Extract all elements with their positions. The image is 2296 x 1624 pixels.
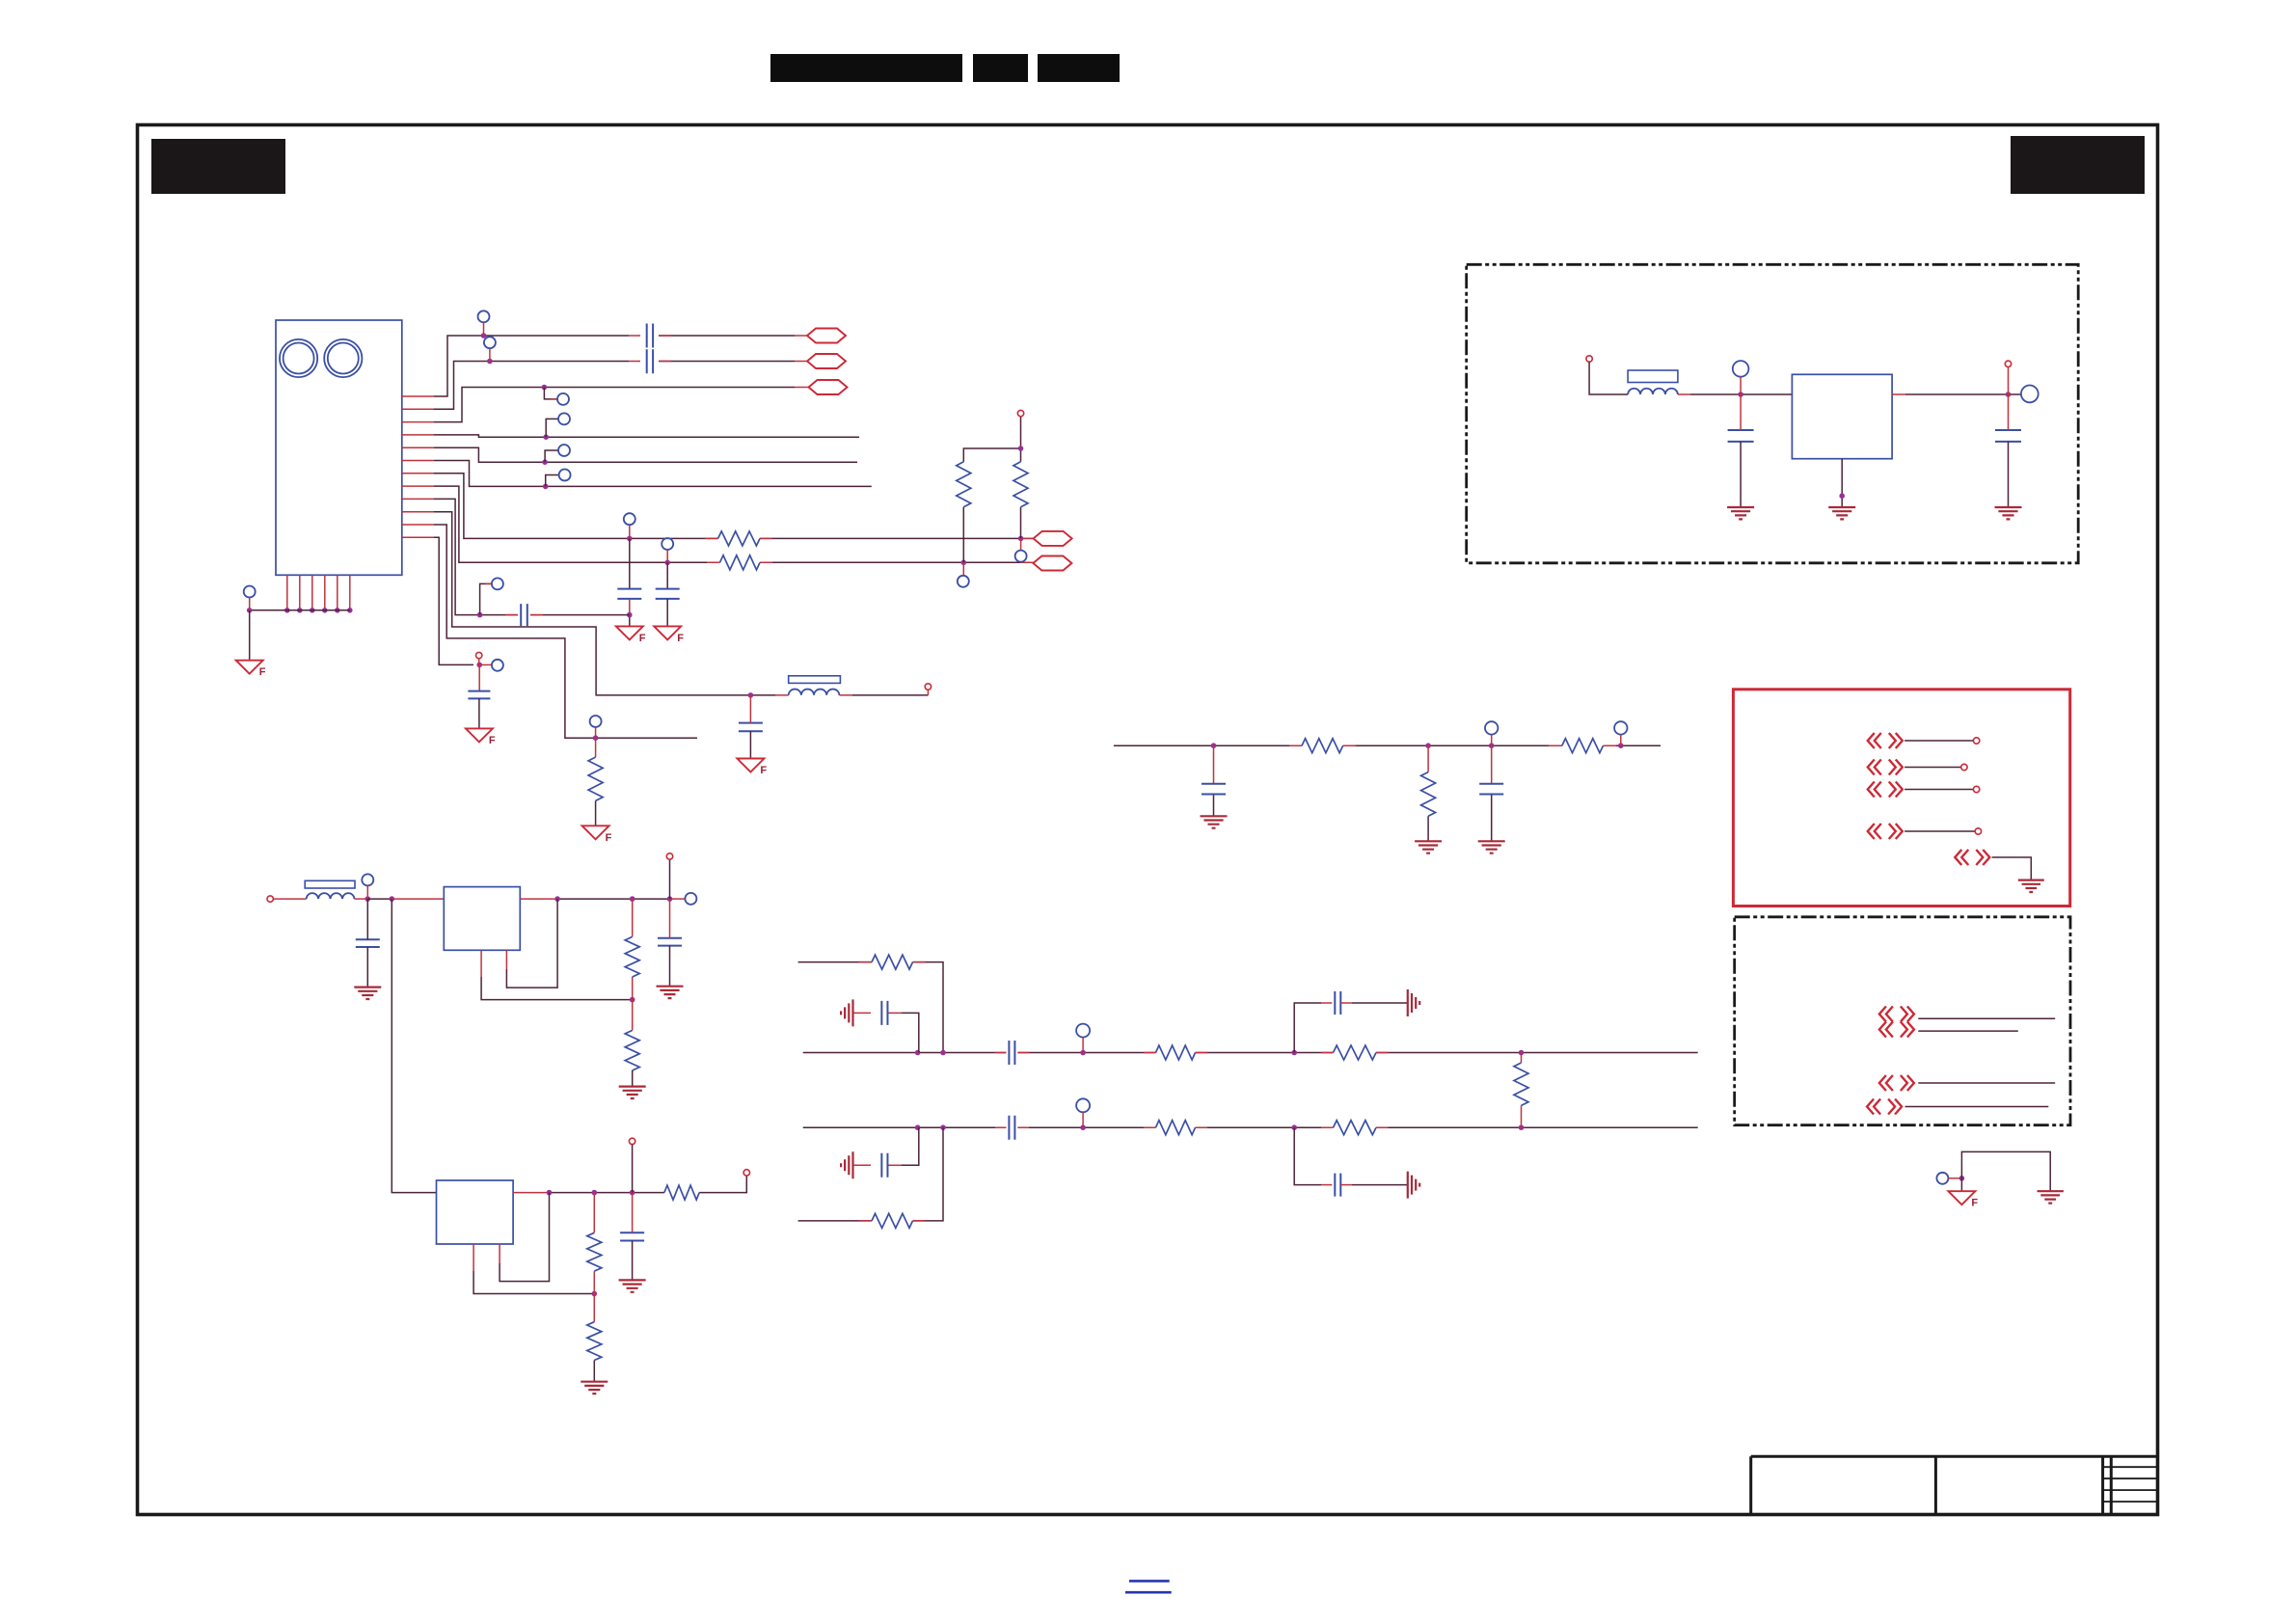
connector diamond DB: [1033, 556, 1071, 571]
sheet frame: [138, 125, 2158, 1515]
wire reg1 in: [367, 898, 392, 900]
terminal VIN-m1: [1586, 356, 1592, 362]
terminal TP1: [478, 311, 490, 322]
terminal P1: [1973, 738, 1979, 744]
wire bus down: [249, 610, 251, 661]
wire C12 bot lead: [478, 698, 480, 728]
svg-text:F: F: [259, 666, 266, 678]
junction pin b2: [297, 608, 303, 613]
resistor R2b: [587, 1322, 602, 1361]
inductor FB1: [307, 893, 355, 899]
wire tie loop: [1961, 1151, 2050, 1191]
capacitor CgT: [881, 1001, 887, 1025]
wire net2: [434, 362, 795, 410]
wire diffB2 red: [995, 1126, 1389, 1128]
junction reg1 in b: [390, 896, 395, 902]
junction B2 c: [1080, 1124, 1086, 1130]
junction T2 d: [1291, 1050, 1297, 1056]
terminal VOUT-m1: [2005, 361, 2011, 366]
resistor Rdiv1: [957, 462, 971, 507]
ground S gcapT: [841, 999, 852, 1026]
title block: [1751, 1456, 2158, 1513]
svg-text:F: F: [639, 633, 646, 644]
terminal TP4: [558, 413, 570, 424]
wire net6: [434, 461, 872, 487]
wire B2 cap branch2: [1340, 1184, 1352, 1186]
wire rcline: [1114, 744, 1661, 746]
wire R11 top lead: [595, 738, 597, 757]
wire reg2 fb path: [473, 1244, 474, 1271]
ground E Crc2: [1478, 841, 1505, 853]
wire VSET2 lead: [632, 1145, 634, 1193]
wire reg1 to box: [392, 898, 444, 900]
terminal VIN1: [267, 896, 273, 902]
junction tie: [1959, 1176, 1965, 1181]
svg-text:F: F: [606, 832, 612, 844]
junction bus left: [247, 608, 253, 613]
capacitor Cin1: [356, 939, 380, 947]
junction net1: [481, 333, 487, 338]
terminal VSET2: [629, 1138, 635, 1144]
capacitor CgB: [881, 1153, 887, 1177]
wire net9: [434, 499, 630, 614]
terminal TP11: [590, 716, 602, 727]
wire Rrc2 leads: [1427, 745, 1429, 771]
wire tie stub: [1948, 1177, 1961, 1179]
wire T2 cap branch: [1294, 1003, 1321, 1053]
junction rc b: [1425, 743, 1431, 748]
wire m1 gnd pin: [1841, 459, 1843, 507]
terminal TPA: [624, 513, 635, 525]
io box: [1733, 690, 2069, 907]
terminal TP-m1in: [1733, 361, 1749, 377]
capacitor Crc2: [1479, 784, 1503, 795]
wire Q3 line: [1905, 1106, 2049, 1108]
junction netA cap: [627, 536, 633, 542]
resistor RB2: [1156, 1121, 1196, 1135]
junction net2: [487, 359, 493, 365]
wire net2 red segs: [629, 361, 807, 363]
terminal TP5: [558, 445, 570, 456]
resistor RB: [720, 555, 761, 570]
pin 5 stub: [402, 447, 434, 448]
junction m1 out: [2006, 392, 2012, 397]
junction pin b1: [284, 608, 290, 613]
capacitor C9: [521, 604, 527, 626]
wire Cm1b leads: [2008, 394, 2010, 430]
wire Q1 line2: [1918, 1030, 2018, 1032]
ground F C10: [737, 759, 764, 772]
wire TP-reg1in stub: [366, 885, 368, 899]
resistor R2a: [587, 1232, 602, 1271]
capacitor CB3: [1335, 1174, 1340, 1197]
wire Crc1 leads: [1213, 745, 1215, 784]
capacitor Cm1a: [1728, 430, 1754, 442]
port symbol Q3: [1867, 1099, 1902, 1115]
terminal TP3: [557, 393, 569, 405]
wire net3 red seg: [795, 387, 809, 389]
junction reg1 fb: [554, 896, 560, 902]
wire P4: [1904, 830, 1975, 832]
wire m1 a: [1678, 393, 1690, 395]
wire gcapT lead: [853, 1012, 872, 1014]
pin 7 stub: [402, 473, 434, 474]
terminal V12: [476, 652, 482, 658]
wire TP-m1in stub: [1740, 377, 1742, 394]
wire V12 stub: [478, 659, 480, 665]
redaction box top-right: [2011, 136, 2145, 194]
wire C12 top lead: [478, 664, 480, 690]
wire net1: [434, 336, 795, 396]
wire reg2 feed: [392, 899, 436, 1193]
resistor RT2: [1156, 1045, 1196, 1060]
ground S CB3: [1408, 1172, 1419, 1199]
junction reg1 fb node: [630, 997, 635, 1003]
wire capA gnd lead: [629, 599, 631, 615]
ground F R11: [582, 826, 609, 839]
terminal VOUT-fb: [925, 684, 931, 690]
terminal TP-divL: [958, 576, 969, 587]
terminal TP-bus: [244, 586, 256, 598]
junction net10 cap: [748, 692, 754, 698]
wire VOUT-m1 stub: [2008, 367, 2010, 395]
wire C10 leads: [749, 695, 751, 723]
wire net10 red segs: [775, 694, 852, 696]
wire reg1 fb path: [480, 950, 482, 977]
resistor Rrc3: [1562, 739, 1604, 753]
junction net9: [477, 612, 483, 618]
junction netB cap: [664, 560, 670, 566]
wire gcapB lead: [853, 1164, 872, 1166]
terminal TP-m1out: [2021, 386, 2039, 403]
junction rc a: [1211, 743, 1217, 748]
redaction box title-3: [1038, 54, 1120, 82]
pin 4 stub: [402, 434, 434, 436]
pin 10 stub: [402, 511, 434, 513]
pin 8 stub: [402, 485, 434, 487]
wire TP6 stub: [546, 475, 559, 487]
wire fb term stub: [927, 690, 929, 695]
wire net9 red segs: [505, 614, 543, 616]
wire TPA stub: [629, 525, 631, 538]
wire div bottom left: [962, 562, 964, 576]
wire div bottom right: [1020, 538, 1022, 550]
wire net3: [434, 388, 795, 422]
wire reg2 out: [513, 1192, 549, 1194]
wire diffT2: [803, 1052, 1698, 1054]
wire rcline red: [1289, 744, 1616, 746]
pin 9 stub: [402, 498, 434, 500]
junction m1 gnd: [1839, 493, 1845, 499]
port symbol P5: [1955, 850, 1989, 865]
wire R1a leads: [632, 899, 634, 1000]
junction reg2 fb node: [592, 1291, 598, 1297]
wire divider top: [963, 417, 1020, 562]
resistor RB3: [1334, 1121, 1377, 1135]
wire m1 out: [1892, 393, 1905, 395]
wire net10: [434, 512, 928, 695]
wire R2b leads: [593, 1294, 595, 1322]
capacitor CB2: [1009, 1116, 1014, 1140]
wire Crc2 leads: [1491, 745, 1493, 784]
junction rc c: [1489, 743, 1495, 748]
svg-text:F: F: [489, 735, 496, 746]
pin 1 stub: [402, 395, 434, 397]
wire R11 bot lead: [595, 800, 597, 826]
junction netA divider: [1018, 536, 1024, 542]
capacitor C12: [468, 691, 490, 699]
wire TP1 stub: [483, 322, 485, 336]
wire TP-rc1 stub: [1491, 735, 1493, 746]
ground S gcapB: [841, 1151, 852, 1178]
resistor Rdiv2: [1013, 462, 1028, 507]
wire Cm1a leads: [1740, 394, 1742, 430]
terminal VT-div: [1017, 410, 1023, 416]
wire Q1 line1: [1918, 1017, 2055, 1019]
capacitor CB: [656, 589, 680, 599]
connector diamond D3: [809, 380, 848, 394]
connector J1: [276, 320, 402, 575]
ferrite bead FB2 body: [789, 676, 841, 684]
junction reg1 r1: [630, 896, 635, 902]
svg-text:F: F: [760, 765, 767, 776]
capacitor C10: [739, 723, 763, 732]
resistor R11: [588, 757, 603, 800]
svg-text:F: F: [677, 633, 684, 644]
wire net1 red segs: [629, 335, 807, 337]
junction rc d: [1618, 743, 1624, 748]
terminal TP-rc2: [1614, 721, 1627, 734]
junction net3: [542, 385, 548, 391]
pin 11 stub: [402, 524, 434, 526]
wire capB lead: [666, 562, 668, 588]
capacitor Cm1b: [1995, 430, 2021, 442]
resistor R2out: [664, 1185, 699, 1200]
terminal P4: [1975, 828, 1981, 834]
capacitor CT2: [1009, 1041, 1014, 1065]
junction div top: [1018, 446, 1024, 451]
terminal VOUT1: [666, 853, 672, 859]
port symbol P1: [1868, 733, 1903, 748]
pin b6 stub: [349, 575, 351, 610]
inductor FB2: [789, 690, 840, 695]
wire net11: [434, 525, 697, 738]
port symbol P2: [1868, 760, 1903, 775]
junction net4: [543, 434, 549, 440]
wire TP2 stub: [489, 348, 491, 361]
pin 6 stub: [402, 460, 434, 462]
ground S CT3: [1408, 989, 1419, 1016]
ferrite bead FB-m1 body: [1628, 370, 1678, 383]
wire capA lead: [629, 538, 631, 588]
junction net11: [593, 735, 599, 741]
pin b2 stub: [299, 575, 301, 610]
resistor Rterm: [1514, 1063, 1528, 1105]
terminal TP-B2: [1076, 1098, 1090, 1112]
ground E Cm1b: [1995, 507, 2022, 519]
connector diamond D2: [807, 354, 846, 368]
terminal VOUT2: [743, 1170, 749, 1176]
terminal TP12: [492, 660, 503, 671]
capacitor Crc1: [1202, 784, 1226, 795]
ground E tie: [2038, 1191, 2064, 1203]
junction B2 d: [1291, 1124, 1297, 1130]
ground F tie: [1948, 1191, 1975, 1204]
wire TP-T2 stub: [1082, 1038, 1084, 1053]
wire B2 cap branch: [1294, 1127, 1321, 1184]
capacitor CA: [617, 589, 641, 599]
junction T2 c: [1080, 1050, 1086, 1056]
wire capB gnd lead: [666, 599, 668, 627]
wire L1 out: [355, 898, 368, 900]
junction pin b4: [322, 608, 328, 613]
wire net12: [434, 537, 473, 664]
port symbol Q1b: [1879, 1022, 1914, 1038]
junction reg2 c: [630, 1190, 635, 1196]
wire net5: [434, 447, 857, 462]
junction reg2 r: [592, 1190, 598, 1196]
terminal TP9: [492, 578, 503, 589]
port symbol Q2: [1879, 1075, 1914, 1091]
resistor R1b: [625, 1030, 639, 1070]
connector diamond DA: [1034, 531, 1072, 546]
junction net6: [543, 484, 549, 490]
wire TP11 stub: [595, 727, 597, 738]
module box 1: [1467, 264, 2079, 563]
ground F bus: [236, 661, 263, 674]
junction B2 b: [940, 1124, 946, 1130]
capacitor C2: [647, 349, 653, 373]
pin 12 stub: [402, 536, 434, 538]
wire R2a leads: [593, 1193, 595, 1294]
wire diffB2: [803, 1126, 1698, 1128]
svg-text:F: F: [1971, 1198, 1978, 1209]
ground F C12: [466, 728, 493, 742]
wire netA red segs: [705, 537, 1034, 539]
wire diffB1 red: [859, 1220, 925, 1222]
redaction box top-left: [151, 139, 285, 194]
wire R1b leads: [632, 1000, 634, 1031]
regulator U2: [437, 1180, 514, 1244]
resistor R1a: [625, 936, 639, 977]
wire P3: [1904, 789, 1973, 791]
terminal TP-rc1: [1485, 721, 1498, 734]
pin 3 stub: [402, 421, 434, 423]
wire TPB stub: [666, 550, 668, 562]
ground E U3: [1828, 507, 1855, 519]
junction Rterm bot: [1519, 1124, 1525, 1130]
junction m1 in: [1738, 392, 1743, 397]
ground E Cout2: [619, 1280, 646, 1291]
pin b5 stub: [337, 575, 338, 610]
ground E Crc1: [1201, 816, 1228, 827]
junction pin b3: [310, 608, 315, 613]
connector J1 jack barrel 2: [324, 339, 362, 377]
capacitor CT3: [1335, 991, 1340, 1015]
pin b4 stub: [324, 575, 326, 610]
ground E Cout1: [657, 987, 684, 998]
wire P2: [1904, 767, 1960, 769]
wire netA: [434, 474, 1034, 539]
wire TP-rc2 stub: [1620, 735, 1622, 746]
junction reg2 fb: [547, 1190, 553, 1196]
ground E R2b: [581, 1382, 608, 1394]
wire diffT2 red: [995, 1052, 1389, 1054]
pin 2 stub: [402, 408, 434, 410]
wire TP-B2 stub: [1082, 1112, 1084, 1127]
wire T2 cap branch2: [1340, 1002, 1352, 1004]
terminal TP-tie: [1936, 1173, 1948, 1184]
resistor RT3: [1334, 1045, 1377, 1060]
terminal TP2: [484, 337, 496, 348]
junction T2 b: [940, 1050, 946, 1056]
regulator U3: [1792, 374, 1892, 458]
wire P1: [1904, 740, 1973, 742]
junction pin b5: [335, 608, 340, 613]
legend line 2: [1125, 1591, 1172, 1594]
capacitor C1: [647, 324, 653, 348]
wire Q2 line: [1918, 1082, 2055, 1084]
ferrite bead FB1 body: [305, 880, 355, 888]
capacitor Cout1: [658, 938, 682, 946]
wire m1 in: [1589, 362, 1628, 394]
port symbol P4: [1868, 824, 1903, 839]
wire ground bus: [250, 609, 350, 611]
wire bus circle stub: [249, 598, 251, 610]
wire diffB1: [798, 1127, 943, 1221]
terminal P3: [1973, 786, 1979, 792]
wire Rterm leads: [1521, 1053, 1523, 1128]
wire TP3 stub: [544, 388, 557, 399]
ground F capA: [616, 626, 643, 639]
wire VIN1 lead: [273, 898, 306, 900]
wire TP9 stub: [480, 583, 492, 614]
wire P5: [1992, 857, 2032, 880]
junction reg1 in a: [365, 896, 371, 902]
redaction box title-1: [770, 54, 962, 82]
inductor FB-m1: [1628, 389, 1678, 394]
ground E P5: [2018, 880, 2044, 892]
junction capA gnd: [627, 612, 633, 618]
terminal P2: [1961, 764, 1967, 770]
wire reg1 out: [520, 898, 557, 900]
legend line 1: [1129, 1580, 1170, 1583]
terminal TP-reg1in: [362, 874, 373, 885]
resistor RT1: [872, 955, 913, 969]
wire net4: [434, 435, 859, 437]
pin b1 stub: [286, 575, 288, 610]
terminal TP-divR: [1015, 551, 1027, 562]
resistor RB1: [872, 1213, 913, 1228]
junction net12: [476, 663, 482, 668]
resistor RA: [718, 531, 760, 546]
wire diffT1: [798, 962, 943, 1053]
connector J1 jack barrel 1: [280, 339, 317, 377]
ground E Cin1: [354, 988, 381, 999]
wire diffT1 red: [859, 961, 925, 963]
junction Rterm top: [1519, 1050, 1525, 1056]
terminal TPB: [662, 538, 673, 550]
terminal TP-reg1out: [685, 893, 696, 905]
regulator U1: [444, 887, 520, 951]
junction net5: [542, 459, 548, 465]
ground E R1b: [619, 1087, 646, 1098]
junction T2 a: [915, 1050, 921, 1056]
wire TP12 stub: [479, 663, 492, 665]
wire Cout2 leads: [632, 1193, 634, 1233]
wire tie down: [1960, 1178, 1962, 1191]
pin b3 stub: [311, 575, 313, 610]
